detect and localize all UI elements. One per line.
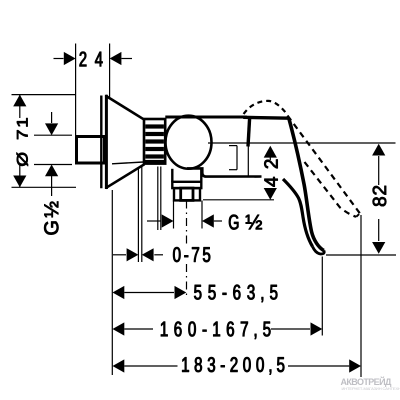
svg-text:ИНТЕРНЕТ-МАГАЗИН САНТЕХНИКИ: ИНТЕРНЕТ-МАГАЗИН САНТЕХНИКИ	[342, 386, 400, 391]
